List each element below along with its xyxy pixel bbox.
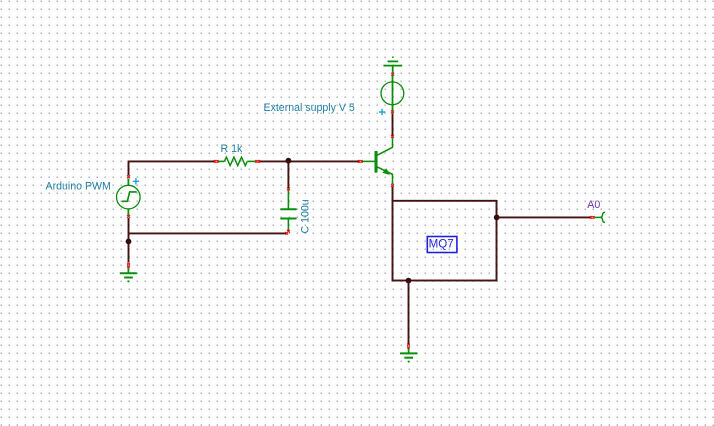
wire: external supply to Q1 collector xyxy=(392,114,394,136)
svg-text:MQ7: MQ7 xyxy=(429,237,454,250)
power terminal (flipped ground symbol) above external supply xyxy=(383,56,402,73)
wire: base node rail from junction to Q1 base xyxy=(259,160,359,162)
wire: top rail, PWM source up and right to R1 xyxy=(129,161,216,175)
svg-text:Arduino PWM: Arduino PWM xyxy=(46,180,111,192)
wire: MQ7 right pin to A0 terminal xyxy=(497,216,591,218)
transistor Q1 (NPN) xyxy=(361,138,393,185)
pin-end tick at Q1 emitter xyxy=(391,184,394,187)
pin-end tick at PWM source bottom xyxy=(127,215,130,218)
wire-end ticks at A0 xyxy=(590,216,595,219)
capacitor C1 xyxy=(280,190,296,231)
pin-end tick at power terminal / supply top xyxy=(391,73,394,76)
junction at MQ7 right pin xyxy=(494,215,500,221)
wire: Q1 emitter down to MQ7 box top-left xyxy=(392,187,394,202)
pin-end tick at C1 bottom xyxy=(287,230,290,233)
junction at R1/C1/base node xyxy=(286,158,292,164)
pin-end tick at Q1 collector xyxy=(391,135,394,138)
pin-end ticks at Q1 base xyxy=(358,160,363,163)
dc voltage source B1 (External supply) xyxy=(381,75,404,114)
pin-end tick at supply bottom xyxy=(391,111,394,114)
terminal A0 xyxy=(595,212,606,222)
ground symbol (bottom, below MQ7) xyxy=(400,348,417,363)
MQ7 sensor body (wire-drawn box) xyxy=(393,201,497,281)
resistor R1 xyxy=(218,157,257,166)
pin-end tick at PWM source top xyxy=(127,175,130,178)
wire: junction down to C1 xyxy=(287,161,289,189)
junction at MQ7 bottom pin xyxy=(406,278,412,284)
wire: MQ7 bottom pin to ground xyxy=(408,281,410,344)
plus polarity mark of Arduino PWM xyxy=(133,178,139,184)
pin-end ticks at R1 right xyxy=(255,160,260,163)
svg-text:C 100u: C 100u xyxy=(300,199,312,233)
plus polarity mark of external supply xyxy=(379,109,385,115)
junction below PWM source xyxy=(126,239,132,245)
ground symbol (left, below PWM source) xyxy=(120,268,137,283)
voltage source VPWM (Arduino PWM) xyxy=(117,179,141,217)
svg-text:R 1k: R 1k xyxy=(221,143,243,155)
pin-end tick at C1 top xyxy=(287,188,290,191)
wire-end ticks above left ground xyxy=(127,263,130,268)
wire: bottom rail from PWM source to C1 xyxy=(129,232,288,234)
pin-end ticks at R1 left xyxy=(214,160,219,163)
label MQ7 (boxed part reference) xyxy=(427,237,457,253)
svg-text:External supply V 5: External supply V 5 xyxy=(264,102,355,114)
svg-text:A0: A0 xyxy=(587,199,600,211)
wire-end ticks above bottom ground xyxy=(407,344,410,349)
wire: PWM source bottom down to ground xyxy=(128,218,130,263)
wire-end tick at bottom rail right xyxy=(285,232,288,235)
